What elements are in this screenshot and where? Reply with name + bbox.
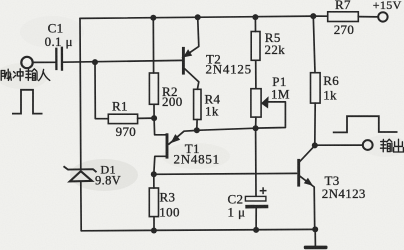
resistor R2 [149,73,158,104]
wire R5 top lead [254,17,256,31]
input pulse waveform [12,90,43,114]
node C2/bottom rail junction [253,227,259,233]
wire R7 to +15V terminal [358,16,378,18]
char chong [13,72,15,78]
capacitor C2 negative plate [245,205,268,209]
wire R5 to P1 [255,60,257,88]
potentiometer P1 wiper arrow [261,96,269,108]
node top rail / R5 junction [252,14,258,20]
wire T1 emitter diagonal [169,130,197,144]
diode D1 zener cathode bar [64,166,97,172]
transistor T3 emitter arrow [304,178,313,186]
node R3/bottom rail junction [151,228,157,234]
potentiometer P1 body [251,89,261,117]
node bottom rail/ground junction [312,226,318,232]
label output (Chinese hand-drawn) [381,139,404,152]
capacitor C2 positive plate [245,196,266,201]
node top rail / R6 junction [310,13,316,19]
wire left rail upper [79,18,82,169]
node R1/R2/T1 B2 junction [151,115,157,121]
node R4/T1 emitter junction [194,127,200,133]
diode D1 anode triangle [70,171,92,181]
node P1 bottom/wiper junction [253,125,259,131]
wire collector node to output [315,144,363,146]
node R6/T3 collector/output junction [312,142,318,148]
wire R6 to collector node [314,103,316,145]
resistor R6 [311,73,321,103]
node top rail / T2 emitter junction [195,14,201,20]
wire input to C1 [33,61,56,63]
wire P1 node to C2 [255,128,257,196]
transistor T1 bar [166,133,169,158]
wire R4 bottom lead [196,120,198,131]
char chu [394,139,404,152]
char ru [39,69,50,80]
transistor T1 emitter arrow [171,134,181,143]
resistor R4 [194,89,201,119]
wire C1 to T2 base [62,60,182,62]
wire R3 top lead [153,174,155,188]
output terminal [363,140,373,150]
wire T2 collector to R4 [185,69,199,90]
resistor R1 [108,114,137,123]
input terminal [21,57,32,68]
capacitor C1 left plate [55,48,57,71]
transistor T2 bar [182,47,185,75]
char shu [26,69,32,80]
capacitor C1 right plate [61,47,63,71]
wire R1 to node B [138,117,155,119]
resistor R3 [149,188,158,217]
node T1 B1/R3/T3 base junction [151,171,157,177]
paper shading [0,16,404,191]
wire R2 bottom lead [153,104,155,118]
wire bottom rail [81,229,315,230]
capacitor C2 polarity plus sign [260,187,267,194]
resistor R5 [251,32,260,61]
wire top rail [80,16,328,18]
+15V terminal [378,12,387,21]
wire C2 bottom lead [255,209,257,230]
wire T1 B1 [154,156,166,174]
wire T1 emitter node to P1 node [197,128,256,130]
wire T3 emitter diagonal [299,176,314,230]
ground [304,246,328,250]
wire node to R1 [95,62,108,119]
char shu [381,139,387,151]
node input/C1 to R1 junction [92,59,98,65]
wire P1 bottom lead [255,117,257,128]
transistor T3 bar [297,159,300,187]
wire R6 top lead [313,16,315,73]
wire P1 wiper return [256,102,286,128]
wire T3 collector diagonal [300,146,315,162]
resistor R7 [328,12,359,22]
wire R2 top lead [152,18,154,73]
transistor T2 emitter arrow [183,49,192,57]
label pulse input (Chinese hand-drawn) [1,69,50,81]
char mai [1,71,5,81]
wire R3 bottom lead [153,217,155,231]
wire T2 emitter to rail [183,17,199,57]
wire ground stem [314,229,316,245]
wire left rail lower [80,181,82,231]
output pulse waveform [333,116,398,132]
node top rail / R2 junction [150,15,156,21]
wire node B to T1 B2 [154,118,166,135]
wire B1 node to T3 base [154,172,297,175]
